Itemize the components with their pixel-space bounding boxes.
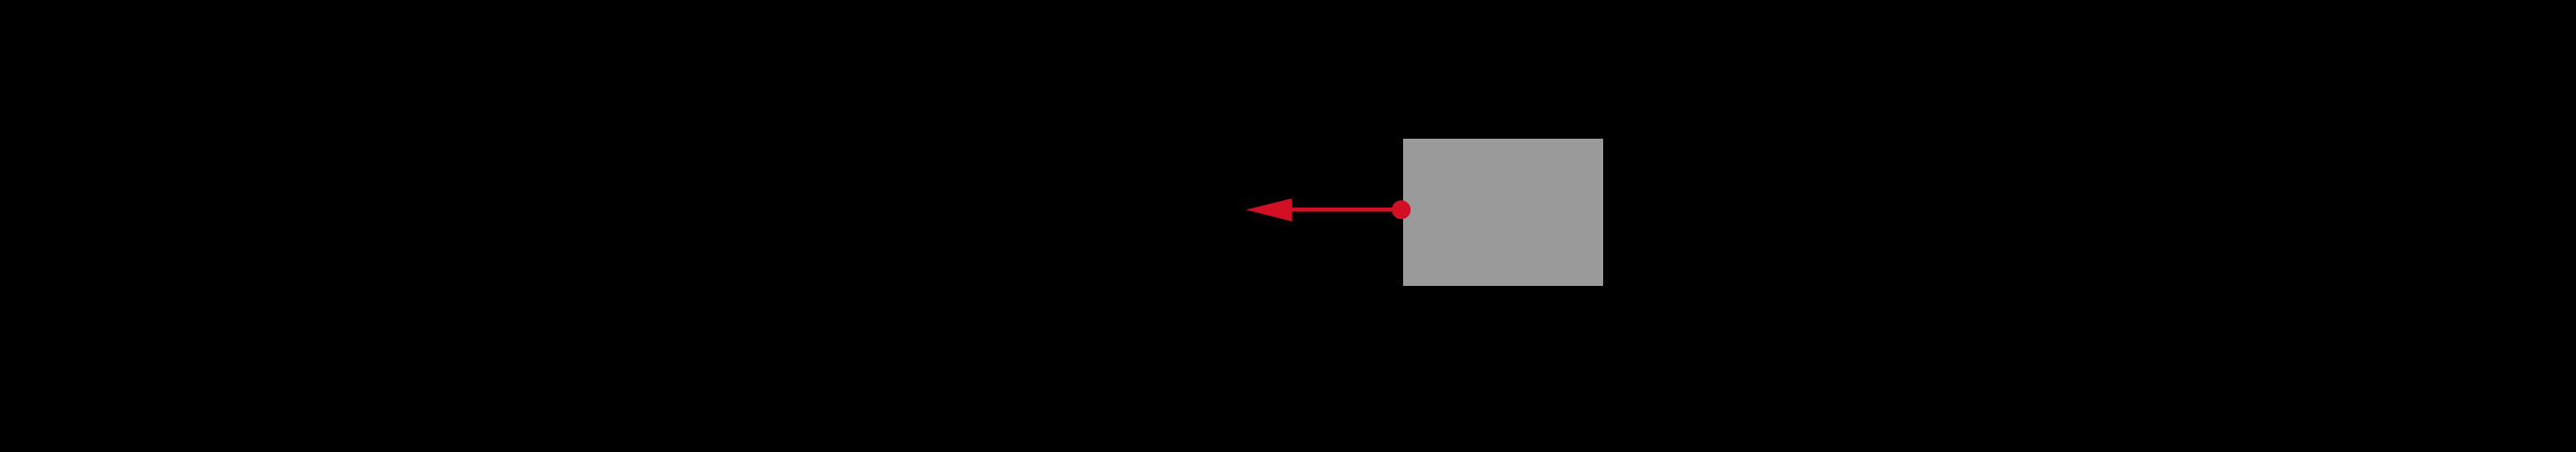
arrowhead [1246,198,1292,221]
block (gray box) [1403,139,1603,286]
wire (red arrow shaft) [1290,208,1401,211]
node (red junction dot) [1392,200,1411,219]
